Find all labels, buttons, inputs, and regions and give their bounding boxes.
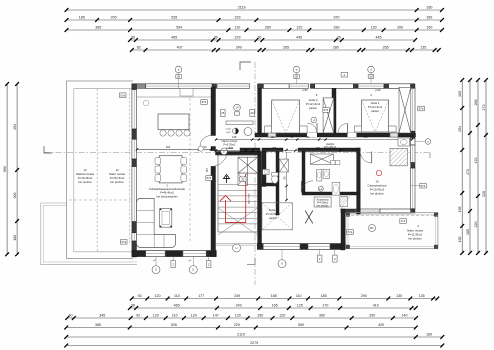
svg-text:ker pločice/parket: ker pločice/parket (156, 194, 177, 198)
svg-text:567: 567 (205, 167, 209, 172)
svg-text:249: 249 (236, 46, 242, 50)
svg-text:36: 36 (257, 36, 261, 40)
svg-text:473: 473 (466, 169, 470, 175)
svg-text:465: 465 (174, 304, 180, 308)
svg-text:574: 574 (324, 108, 329, 112)
svg-text:970: 970 (334, 16, 340, 20)
svg-text:229: 229 (235, 16, 241, 20)
svg-text:574: 574 (207, 176, 212, 180)
svg-text:290: 290 (361, 294, 367, 298)
svg-text:550: 550 (298, 323, 304, 327)
svg-text:P=5,03m2: P=5,03m2 (224, 142, 236, 146)
svg-text:25: 25 (221, 111, 225, 115)
svg-text:1M: 1M (369, 77, 372, 79)
svg-text:parket: parket (269, 216, 277, 220)
svg-text:2119: 2119 (237, 333, 245, 337)
svg-text:300: 300 (13, 193, 17, 199)
svg-text:120: 120 (296, 26, 302, 30)
svg-text:120: 120 (191, 314, 197, 318)
svg-text:2279: 2279 (250, 341, 258, 345)
svg-text:165: 165 (272, 304, 278, 308)
svg-text:229: 229 (234, 323, 240, 327)
svg-text:298: 298 (363, 135, 368, 139)
svg-text:parket: parket (309, 106, 317, 110)
svg-text:574: 574 (421, 184, 426, 188)
svg-text:parket: parket (371, 109, 379, 113)
svg-text:229: 229 (235, 36, 241, 40)
svg-text:200: 200 (397, 26, 403, 30)
svg-text:407: 407 (177, 46, 183, 50)
svg-text:177: 177 (198, 294, 204, 298)
svg-text:92: 92 (138, 294, 142, 298)
svg-text:180: 180 (13, 235, 17, 241)
svg-text:2119: 2119 (238, 6, 246, 10)
svg-text:172: 172 (401, 219, 406, 223)
svg-text:260: 260 (265, 26, 271, 30)
svg-text:36: 36 (214, 36, 218, 40)
svg-text:36: 36 (131, 36, 135, 40)
svg-text:280: 280 (333, 46, 339, 50)
svg-text:385: 385 (95, 323, 101, 327)
svg-text:82: 82 (137, 46, 141, 50)
svg-text:158: 158 (272, 146, 277, 150)
svg-text:120: 120 (155, 294, 161, 298)
svg-text:110: 110 (174, 294, 180, 298)
svg-text:+0,00: +0,00 (225, 129, 231, 131)
svg-text:169: 169 (458, 91, 462, 97)
svg-text:265: 265 (283, 46, 289, 50)
svg-text:268: 268 (474, 100, 478, 106)
svg-text:250: 250 (369, 314, 375, 318)
svg-text:U: U (192, 268, 194, 272)
svg-text:111: 111 (229, 146, 233, 150)
svg-text:535: 535 (171, 16, 177, 20)
svg-text:P=5,45m2: P=5,45m2 (324, 145, 336, 149)
svg-text:57a: 57a (121, 240, 126, 244)
svg-text:185: 185 (321, 294, 327, 298)
svg-text:220: 220 (474, 222, 478, 228)
svg-text:-0,02: -0,02 (226, 132, 232, 134)
svg-text:p=90: p=90 (302, 90, 308, 92)
svg-text:120: 120 (371, 26, 377, 30)
svg-text:110: 110 (296, 294, 302, 298)
svg-text:990: 990 (3, 166, 7, 172)
svg-text:420: 420 (378, 323, 384, 327)
svg-text:102: 102 (270, 135, 275, 139)
svg-text:16x17,5/29: 16x17,5/29 (249, 193, 251, 205)
svg-text:330: 330 (334, 26, 340, 30)
svg-text:1M: 1M (177, 77, 180, 79)
svg-text:195: 195 (458, 237, 462, 243)
svg-text:273: 273 (482, 105, 486, 111)
svg-text:200: 200 (111, 16, 117, 20)
svg-text:ker pločice: ker pločice (78, 180, 92, 184)
svg-text:ker pločice: ker pločice (317, 205, 330, 208)
svg-text:130: 130 (396, 294, 402, 298)
svg-text:92: 92 (136, 314, 140, 318)
svg-text:57a: 57a (348, 230, 353, 234)
svg-text:135: 135 (420, 46, 426, 50)
svg-text:160: 160 (426, 26, 432, 30)
svg-text:147: 147 (213, 314, 219, 318)
svg-text:160: 160 (426, 16, 432, 20)
svg-text:120: 120 (153, 314, 159, 318)
svg-text:14: 14 (235, 106, 239, 110)
svg-text:43: 43 (250, 111, 254, 115)
svg-text:170: 170 (322, 304, 328, 308)
svg-text:594: 594 (176, 26, 182, 30)
svg-text:445: 445 (296, 36, 302, 40)
svg-text:U: U (235, 246, 237, 250)
svg-text:B1: B1 (370, 226, 374, 230)
svg-text:150: 150 (257, 314, 263, 318)
svg-text:L2: L2 (319, 187, 323, 191)
svg-text:110: 110 (172, 314, 178, 318)
svg-text:445: 445 (376, 36, 382, 40)
svg-text:574: 574 (202, 100, 207, 104)
svg-text:140: 140 (402, 314, 408, 318)
svg-text:249: 249 (236, 304, 242, 308)
svg-text:120: 120 (235, 314, 241, 318)
svg-text:ker pločice: ker pločice (370, 192, 384, 196)
svg-text:265: 265 (383, 46, 389, 50)
svg-text:ker pločice: ker pločice (408, 237, 422, 241)
svg-text:254: 254 (458, 126, 462, 132)
svg-text:p=90: p=90 (375, 90, 381, 92)
svg-text:U: U (155, 268, 157, 272)
svg-text:466: 466 (166, 145, 171, 149)
svg-text:57a: 57a (120, 93, 125, 97)
svg-text:195: 195 (458, 207, 462, 213)
svg-text:17: 17 (222, 149, 226, 153)
svg-text:57a: 57a (419, 107, 424, 111)
svg-text:185: 185 (271, 294, 277, 298)
svg-text:249: 249 (234, 294, 240, 298)
svg-text:P=46,46m2: P=46,46m2 (160, 191, 174, 195)
svg-text:360: 360 (319, 314, 325, 318)
svg-text:135: 135 (419, 294, 425, 298)
svg-text:Kuhinja/blagavaonica/boravak: Kuhinja/blagavaonica/boravak (149, 187, 186, 191)
svg-text:25: 25 (241, 177, 245, 181)
svg-text:494: 494 (13, 124, 17, 130)
svg-text:120: 120 (279, 314, 285, 318)
svg-text:185: 185 (79, 16, 85, 20)
svg-text:110: 110 (235, 26, 241, 30)
svg-text:385: 385 (95, 26, 101, 30)
svg-text:535: 535 (171, 323, 177, 327)
svg-text:423: 423 (474, 158, 478, 164)
svg-text:U: U (281, 262, 283, 266)
svg-text:410: 410 (373, 304, 379, 308)
svg-text:1M: 1M (295, 77, 298, 79)
svg-text:465: 465 (171, 36, 177, 40)
svg-text:328: 328 (482, 191, 486, 197)
svg-text:160: 160 (426, 333, 432, 337)
svg-text:36: 36 (131, 304, 135, 308)
svg-text:125: 125 (297, 304, 303, 308)
svg-text:136: 136 (232, 135, 237, 139)
svg-text:345: 345 (99, 314, 105, 318)
svg-text:165: 165 (316, 146, 321, 150)
svg-text:ker pločice: ker pločice (110, 180, 124, 184)
svg-text:36: 36 (337, 36, 341, 40)
svg-text:185: 185 (466, 229, 470, 235)
svg-text:40: 40 (69, 314, 73, 318)
svg-text:160: 160 (426, 6, 432, 10)
